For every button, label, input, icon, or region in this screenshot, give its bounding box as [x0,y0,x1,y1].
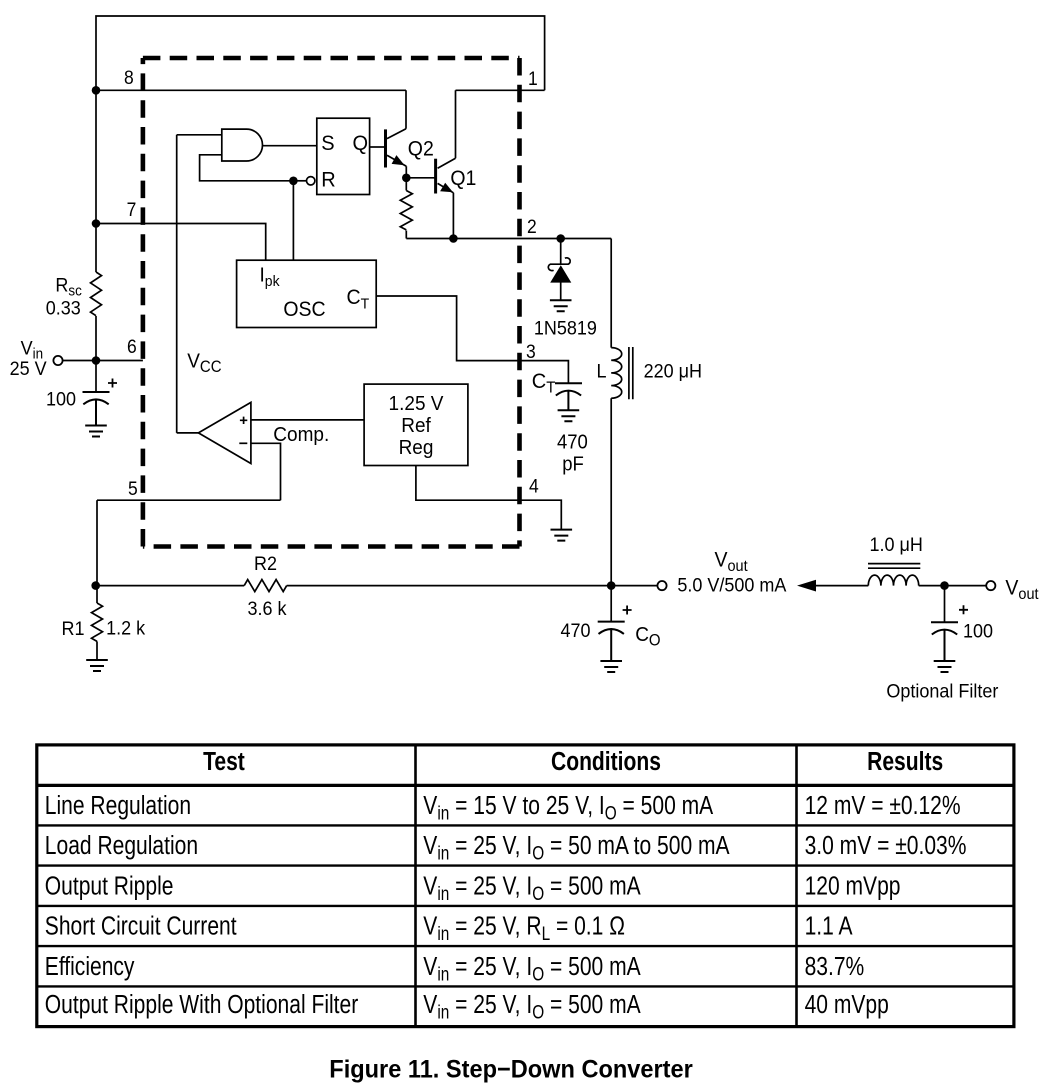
svg-text:R: R [321,168,335,192]
svg-text:L: L [597,360,607,382]
resistor Rsc zigzag [91,272,102,316]
caption [329,1056,693,1084]
svg-text:7: 7 [127,198,137,220]
svg-text:Vin = 25 V, IO = 500 mA: Vin = 25 V, IO = 500 mA [423,953,641,985]
terminal Vout filter [986,581,995,590]
svg-text:Vin = 25 V, RL = 0.1 Ω: Vin = 25 V, RL = 0.1 Ω [423,913,625,945]
ground pin 4 [551,530,573,541]
capacitor Co [598,586,625,661]
arrow Q2 emitter [392,155,405,165]
svg-text:1N5819: 1N5819 [534,317,597,339]
svg-text:Load Regulation: Load Regulation [45,832,198,861]
svg-text:Output Ripple With Optional Fi: Output Ripple With Optional Filter [45,991,359,1020]
svg-text:Output Ripple: Output Ripple [45,872,174,901]
wire output row left of R2 [96,585,245,587]
node diode pin 2 junction [556,234,565,243]
diode 1N5819 schottky [548,239,570,301]
node Co output junction [607,581,616,590]
ground R1 [86,660,108,671]
svg-text:4: 4 [529,475,539,497]
svg-text:Figure 11. Step−Down Converter: Figure 11. Step−Down Converter [329,1056,693,1084]
ground input cap [85,426,107,437]
table header text [203,748,943,777]
wire top loop pin8 to pin1 [96,16,545,90]
svg-text:S: S [321,131,334,155]
svg-text:Vin = 25 V, IO = 50 mA to 500: Vin = 25 V, IO = 50 mA to 500 mA [423,832,729,864]
wire output row right of R2 [287,585,658,587]
svg-text:470: 470 [557,432,588,454]
ground Co [600,661,622,672]
svg-text:Optional Filter: Optional Filter [886,680,998,702]
inductor 1.0uH optional filter [868,564,986,586]
svg-text:6: 6 [127,335,137,357]
svg-text:R2: R2 [254,552,277,574]
wire Rsc to Vin node [95,316,97,361]
svg-text:OSC: OSC [283,299,325,322]
wire AND lower input [200,155,294,181]
svg-text:Line Regulation: Line Regulation [45,792,191,821]
svg-text:pF: pF [562,454,584,476]
node pin 7 junction [92,219,101,228]
svg-text:83.7%: 83.7% [805,953,865,982]
wire Q output to Q2 base [370,146,385,148]
wire R dot down to OSC [292,181,294,260]
transistor Q1 [436,90,456,238]
svg-text:5.0 V/500 mA: 5.0 V/500 mA [677,574,787,596]
wire comparator output / AND input vertical [177,135,222,433]
IC dashed border [143,58,520,547]
svg-text:Q2: Q2 [408,138,434,161]
svg-text:Vin = 15 V to 25 V, IO = 500 m: Vin = 15 V to 25 V, IO = 500 mA [423,792,713,824]
svg-text:40 mVpp: 40 mVpp [805,991,889,1020]
svg-text:Short Circuit Current: Short Circuit Current [45,913,237,942]
table body text [45,792,967,1023]
wire pin 5 left leg down [96,500,98,585]
comparator [198,402,251,463]
svg-text:8: 8 [124,66,134,88]
wire pin 2 row [406,238,611,240]
wire AND output to S [263,145,317,147]
svg-text:3.6 k: 3.6 k [248,597,288,619]
transistor Q2 [386,90,407,178]
comparator plus input mark [240,417,247,424]
OSC box [237,260,377,327]
wire Vin node down to input cap [95,361,97,393]
svg-text:220 μH: 220 μH [644,360,702,382]
svg-text:Comp.: Comp. [273,423,329,446]
svg-text:R1: R1 [62,617,85,639]
svg-text:100: 100 [963,620,993,642]
wire OSC CT out to pin 3 row [376,296,568,383]
svg-text:100: 100 [46,388,76,410]
wire left rail pin7 to Rsc [95,224,97,273]
svg-text:470: 470 [561,619,591,641]
svg-text:Q1: Q1 [450,167,476,190]
node filter cap junction [940,581,949,590]
ground diode [550,300,572,311]
svg-text:5: 5 [128,477,138,499]
capacitor CT 470pF [555,383,582,410]
wire pin 1 row [456,89,545,91]
plus sign Co [623,606,632,615]
arrow to optional filter [797,580,816,592]
Ref Reg box [364,384,468,465]
wire pin 4 [416,466,561,530]
node Q2 emitter Q1 base junction [402,174,411,183]
resistor Q2 emitter to pin2 [400,178,412,239]
resistor R1 [92,586,103,660]
arrow Q1 emitter [440,183,453,193]
wire arrow to filter coil [816,585,868,587]
terminal Vin [53,356,62,365]
svg-text:Efficiency: Efficiency [45,953,135,982]
svg-text:3: 3 [526,340,536,362]
svg-text:12 mV = ±0.12%: 12 mV = ±0.12% [805,792,961,821]
plus sign filter cap [959,605,968,614]
wire pin 7 row [96,224,266,261]
svg-text:1.25 V: 1.25 V [389,392,445,415]
svg-text:Q: Q [353,131,369,155]
inductor L 220uH [611,239,633,586]
ground CT cap [558,410,580,421]
wire pin 8 row [96,89,406,91]
SR latch box [317,118,370,194]
svg-text:Results: Results [867,748,943,777]
plus sign input cap [108,379,117,388]
node Q1 emitter pin 2 junction [449,234,458,243]
AND gate U1 [222,129,263,161]
svg-text:120 mVpp: 120 mVpp [805,872,901,901]
wire comparator plus input [251,419,364,421]
node pin 8 junction [92,86,101,95]
svg-text:Vin = 25 V, IO = 500 mA: Vin = 25 V, IO = 500 mA [423,872,641,904]
wire Q2 emitter node to Q1 base [406,177,434,179]
node Vin pin 6 junction [92,356,101,365]
terminal Vout main [657,581,666,590]
node R input junction [289,177,298,186]
svg-text:Vin = 25 V, IO = 500 mA: Vin = 25 V, IO = 500 mA [423,991,641,1023]
wire comparator minus input to pin 5 [251,443,281,500]
svg-text:1.0 μH: 1.0 μH [870,533,923,555]
wire R line dot to bubble [293,180,306,182]
capacitor 100 filter [931,586,958,661]
svg-text:Ref: Ref [401,414,431,437]
wire pin 6 row [96,360,143,362]
svg-text:Test: Test [203,748,245,777]
wire Vin terminal stub [63,360,96,362]
svg-text:1: 1 [528,67,538,89]
capacitor C input 100uF [83,392,110,426]
svg-text:Reg: Reg [399,436,434,459]
svg-text:1.1 A: 1.1 A [805,913,853,942]
svg-text:2: 2 [527,215,537,237]
svg-text:25 V: 25 V [10,357,48,379]
node R1 R2 feedback junction [91,581,100,590]
svg-text:3.0 mV = ±0.03%: 3.0 mV = ±0.03% [805,832,967,861]
ground filter cap [934,661,956,672]
wire left rail pin8 to pin7 [95,90,97,223]
inverter bubble on R input [307,177,315,185]
comparator minus input mark [239,442,247,444]
table [37,745,1014,1027]
wire pin 5 row [97,499,281,501]
svg-text:Conditions: Conditions [551,748,661,777]
svg-text:1.2 k: 1.2 k [106,617,146,639]
resistor R2 zigzag [244,580,287,592]
svg-text:0.33: 0.33 [46,297,81,319]
